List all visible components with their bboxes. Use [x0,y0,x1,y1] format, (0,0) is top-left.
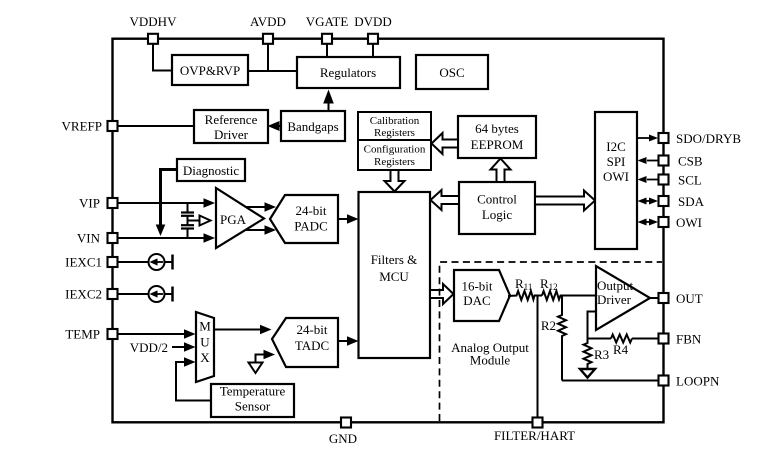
mux MUX [196,312,214,382]
svg-text:DVDD: DVDD [354,14,392,29]
pin VIN [108,233,118,243]
block arrow Control Logic to EEPROM [491,159,511,183]
svg-text:M: M [199,319,211,334]
svg-text:SCL: SCL [678,173,702,188]
buffer tap triangle [188,220,200,222]
svg-text:Logic: Logic [482,207,513,222]
svg-text:TADC: TADC [295,338,329,353]
svg-text:Configuration: Configuration [364,144,426,156]
arrow PGA to PADC lower [245,229,267,231]
svg-text:OVP&RVP: OVP&RVP [180,63,240,78]
svg-text:Output: Output [597,278,634,293]
svg-text:Module: Module [470,353,511,368]
svg-text:VGATE: VGATE [306,14,349,29]
svg-text:VIN: VIN [77,231,101,246]
svg-text:MCU: MCU [379,269,409,284]
dashed module boundary [440,262,663,421]
resistor R2 [558,296,566,381]
block 64 bytes EEPROM [458,116,536,158]
svg-text:X: X [200,350,210,365]
pin VGATE [322,34,332,44]
ground arrow into TADC [256,355,267,363]
pin AVDD [263,34,273,44]
svg-text:OUT: OUT [676,291,703,306]
pin IEXC2 [108,289,118,299]
block Configuration Registers [358,140,431,170]
pin SDO/DRYB [659,133,669,143]
svg-text:Registers: Registers [374,156,415,168]
svg-text:SDA: SDA [678,194,705,209]
svg-text:SDO/DRYB: SDO/DRYB [676,131,741,146]
svg-text:OSC: OSC [439,65,464,80]
svg-text:AVDD: AVDD [250,14,286,29]
wire VREFP to Reference Driver [118,125,194,127]
wire FBN [632,338,658,340]
pin OWI [659,217,669,227]
svg-text:TEMP: TEMP [65,327,100,342]
svg-text:CSB: CSB [678,154,703,169]
resistor R4 [611,335,632,343]
wire+arrow VIP to PGA [118,202,206,204]
wire AVDD down [267,44,269,71]
op-amp Output Driver [596,266,650,330]
svg-text:FBN: FBN [676,332,702,347]
svg-text:Sensor: Sensor [235,399,271,414]
pin FILTER/HART [533,418,543,428]
svg-text:VDDHV: VDDHV [130,14,178,29]
svg-text:OWI: OWI [676,215,702,230]
wire R2 to LOOPN [562,380,658,382]
svg-text:VREFP: VREFP [62,119,102,134]
svg-text:R4: R4 [613,342,629,357]
svg-text:Temperature: Temperature [220,384,286,399]
svg-text:Regulators: Regulators [320,65,376,80]
pin LOOPN [659,376,669,386]
svg-text:64 bytes: 64 bytes [475,121,519,136]
wire SDA double arrow [643,200,652,202]
pin VDDHV [148,34,158,44]
block Filters & MCU [359,192,431,358]
svg-text:Control: Control [477,192,517,207]
block arrow EEPROM to Registers [432,133,459,154]
svg-text:PADC: PADC [294,219,327,234]
wire+arrow VDD/2 to MUX [172,346,187,348]
arrow PGA to PADC upper [246,206,267,208]
wire+arrow to SDO/DRYB [637,137,649,139]
adc 24-bit PADC [270,195,338,243]
pin DVDD [368,34,378,44]
block Control Logic [459,182,535,234]
svg-text:VIP: VIP [79,196,100,211]
block arrow Filters to DAC [430,284,454,304]
capacitor pair on input [187,203,189,212]
svg-text:R2: R2 [541,318,556,333]
resistor R12 [542,291,562,300]
feedback wire FBN node to op-amp input [588,312,597,339]
block Calibration Registers [358,112,431,140]
svg-text:Calibration: Calibration [370,115,420,127]
ground symbol at TADC [249,363,263,374]
svg-text:IEXC1: IEXC1 [65,255,102,270]
wire VGATE down [326,44,328,57]
svg-text:Registers: Registers [374,127,415,139]
block OSC [416,55,488,89]
svg-text:SPI: SPI [607,154,626,169]
wire Output Driver to OUT [650,297,658,299]
svg-text:16-bit: 16-bit [461,279,492,294]
pin CSB [659,156,669,166]
svg-text:LOOPN: LOOPN [676,374,720,389]
block arrow Control Logic to Filters & MCU [431,190,460,210]
wire+arrow TEMP to MUX [118,333,187,335]
arrow Bandgaps to Reference Driver [278,125,281,127]
pin SDA [659,196,669,206]
wire+arrow CSB to I2C [647,160,658,162]
svg-text:Filters &: Filters & [371,252,418,267]
wire+arrow VIN to PGA [118,237,206,239]
svg-text:R3: R3 [594,347,609,362]
pin FBN [659,334,669,344]
wire Temperature Sensor to MUX [176,362,211,401]
svg-text:GND: GND [329,431,357,446]
chip outer border [113,39,664,423]
block arrow Registers to Filters & MCU [385,170,405,192]
pin GND [341,418,351,428]
svg-text:EEPROM: EEPROM [471,137,524,152]
diagnostic arrow down to VIN wire [161,170,178,227]
svg-text:Driver: Driver [597,292,632,307]
svg-text:U: U [200,335,210,350]
resistor R3 [584,339,592,370]
svg-text:VDD/2: VDD/2 [130,340,168,355]
wire OVP&RVP to Regulators [248,70,297,72]
ground below R3 [580,369,595,378]
svg-text:DAC: DAC [463,293,490,308]
svg-text:Diagnostic: Diagnostic [183,163,240,178]
arrow PADC to Filters [338,218,350,220]
wire+arrow SCL to I2C [647,179,658,181]
svg-text:FILTER/HART: FILTER/HART [494,428,575,443]
op-amp PGA [216,188,264,248]
wire OWI double arrow [643,221,652,223]
svg-text:PGA: PGA [220,212,247,227]
wire VDDHV to OVP&RVP [153,44,172,71]
svg-text:Driver: Driver [214,127,249,142]
block OVP&RVP [172,55,248,85]
wire R12 to Output Driver [561,295,597,297]
svg-text:24-bit: 24-bit [295,203,326,218]
current source IEXC2 [118,293,149,295]
svg-text:24-bit: 24-bit [296,322,327,337]
block arrow Control Logic to I2C SPI OWI [535,191,595,211]
svg-text:I2C: I2C [606,139,626,154]
block Bandgaps [281,111,345,141]
dac 16-bit DAC [454,270,510,321]
block Regulators [297,57,400,88]
pin VREFP [108,121,118,131]
arrow TADC to Filters [338,340,350,342]
current source IEXC1 [118,261,149,263]
block Diagnostic [177,159,245,181]
pin OUT [659,293,669,303]
wire+arrow MUX to TADC [214,329,263,331]
resistor R11 [508,291,542,300]
block I2C SPI OWI [595,112,637,249]
block Temperature Sensor [211,384,294,417]
svg-text:Bandgaps: Bandgaps [287,119,338,134]
block Reference Driver [194,110,268,143]
pin SCL [659,175,669,185]
svg-text:Reference: Reference [205,112,258,127]
pin VIP [108,198,118,208]
svg-text:OWI: OWI [603,169,629,184]
adc 24-bit TADC [272,318,338,367]
pin IEXC1 [108,257,118,267]
wire DVDD down [372,44,374,57]
arrow Bandgaps to Regulators [328,101,330,111]
pin TEMP [108,329,118,339]
wire junction to FILTER/HART [537,296,539,417]
svg-text:IEXC2: IEXC2 [65,287,102,302]
